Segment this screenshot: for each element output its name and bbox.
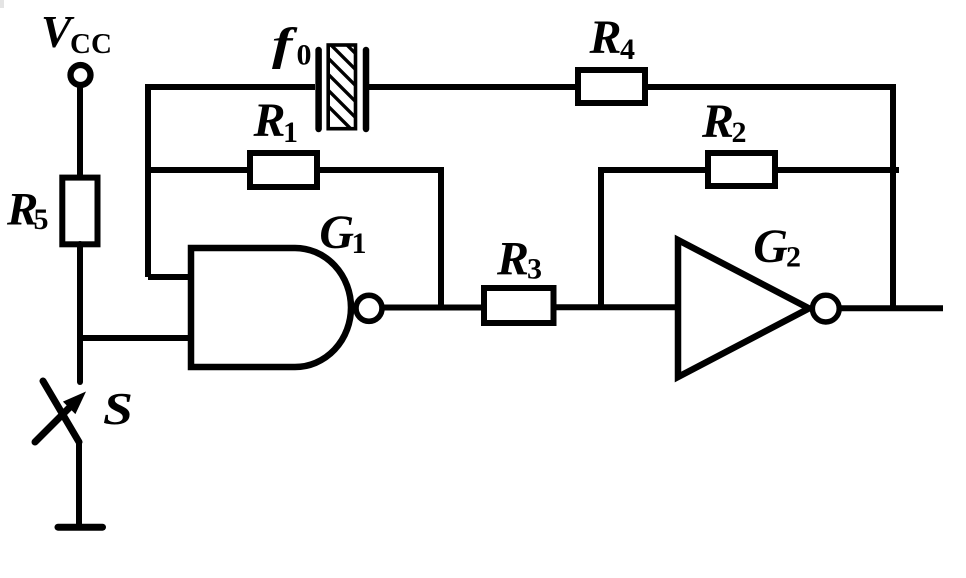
- label f0: [272, 19, 312, 72]
- svg-text:2: 2: [786, 241, 801, 274]
- wire net top-left vertical with crystal feed: [148, 87, 315, 277]
- label R2: [701, 95, 747, 149]
- resistor R4: [578, 70, 645, 103]
- label G2: [753, 220, 801, 274]
- wire G1 input A stub: [148, 274, 191, 280]
- inverter G2: [678, 240, 809, 377]
- svg-text:R: R: [589, 11, 622, 64]
- terminal VCC: [71, 65, 91, 85]
- wire R3 to G2 input: [554, 304, 678, 310]
- wire G2 output: [840, 305, 943, 311]
- wire node to G1 input B: [77, 335, 191, 341]
- svg-text:R: R: [496, 233, 529, 286]
- label R3: [496, 233, 542, 286]
- resistor R2: [708, 153, 775, 186]
- svg-text:2: 2: [732, 116, 747, 149]
- svg-text:G: G: [753, 220, 788, 273]
- resistor R3: [484, 288, 554, 323]
- wire G1 output to R3: [383, 305, 484, 311]
- wire R4 right to right rail: [645, 87, 893, 308]
- svg-text:R: R: [253, 94, 286, 147]
- G2 output bubble: [812, 295, 839, 322]
- wire node to R2 left: [601, 170, 708, 308]
- svg-text:G: G: [319, 206, 354, 259]
- label VCC: [41, 6, 112, 60]
- wire R1 right down to output node: [317, 170, 441, 308]
- label R5: [6, 184, 49, 237]
- G1 output bubble: [356, 295, 382, 321]
- switch S blade: [43, 381, 79, 442]
- svg-text:1: 1: [283, 116, 298, 149]
- svg-text:R: R: [701, 95, 734, 148]
- switch S arrow: [35, 392, 86, 443]
- resistor R1: [250, 153, 317, 187]
- crystal f0 body: [310, 8, 380, 158]
- resistor R5: [62, 178, 97, 245]
- wire switch to ground: [76, 442, 82, 527]
- svg-text:1: 1: [352, 227, 367, 260]
- svg-text:CC: CC: [70, 28, 112, 60]
- svg-text:5: 5: [34, 203, 49, 236]
- crystal f0 right plate: [363, 50, 370, 129]
- wire R1 left: [145, 167, 250, 173]
- label G1: [319, 206, 366, 260]
- svg-text:f: f: [272, 19, 298, 70]
- wire VCC terminal to R5: [77, 87, 83, 178]
- corner artifact: [0, 0, 4, 8]
- wire crystal to R4: [366, 84, 578, 90]
- wire R2 right to right rail: [775, 167, 899, 173]
- NAND gate G1: [191, 248, 351, 367]
- svg-text:4: 4: [620, 33, 635, 66]
- label R1: [253, 94, 299, 149]
- crystal f0 left plate: [315, 50, 322, 129]
- ground: [58, 524, 103, 531]
- wire R5 to switch: [77, 244, 83, 382]
- svg-text:3: 3: [527, 253, 542, 286]
- label R4: [589, 11, 636, 66]
- svg-text:0: 0: [297, 39, 312, 72]
- svg-text:S: S: [103, 383, 133, 434]
